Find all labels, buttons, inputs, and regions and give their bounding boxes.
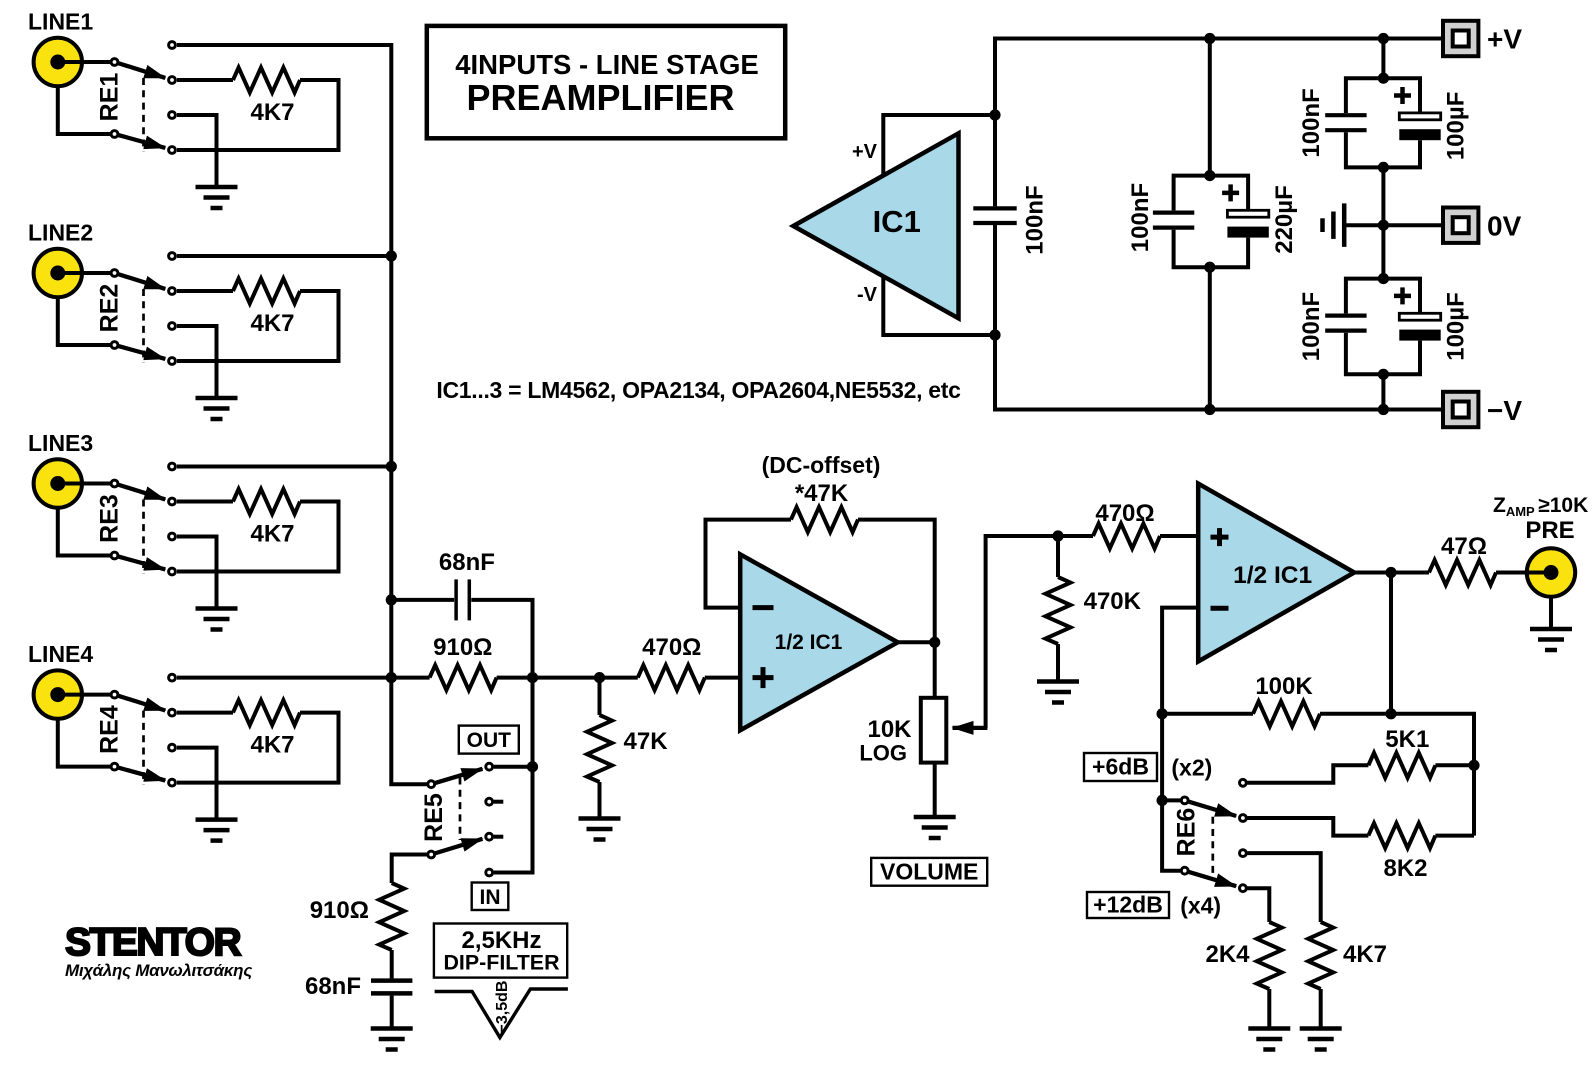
svg-text:4K7: 4K7 <box>250 521 294 548</box>
svg-text:4K7: 4K7 <box>1343 941 1387 968</box>
svg-text:(x2): (x2) <box>1171 755 1212 781</box>
svg-text:−3,5dB: −3,5dB <box>494 981 511 1034</box>
svg-text:+6dB: +6dB <box>1092 754 1149 780</box>
svg-text:RE4: RE4 <box>95 705 123 754</box>
svg-text:100µF: 100µF <box>1442 292 1469 361</box>
svg-text:LINE3: LINE3 <box>28 430 93 456</box>
svg-text:4K7: 4K7 <box>250 732 294 759</box>
svg-text:LINE1: LINE1 <box>28 9 93 35</box>
svg-text:47Ω: 47Ω <box>1441 533 1487 560</box>
svg-text:2K4: 2K4 <box>1205 941 1250 968</box>
svg-text:220µF: 220µF <box>1271 185 1298 254</box>
svg-text:5K1: 5K1 <box>1385 726 1429 753</box>
svg-text:100nF: 100nF <box>1298 292 1325 361</box>
svg-text:68nF: 68nF <box>305 973 361 1000</box>
svg-text:OUT: OUT <box>467 729 512 752</box>
svg-text:IC1...3 = LM4562, OPA2134, OPA: IC1...3 = LM4562, OPA2134, OPA2604,NE553… <box>436 377 961 403</box>
svg-text:VOLUME: VOLUME <box>880 859 978 885</box>
svg-text:(x4): (x4) <box>1180 893 1221 919</box>
svg-text:470K: 470K <box>1084 588 1142 615</box>
svg-text:100nF: 100nF <box>1127 183 1154 252</box>
svg-text:910Ω: 910Ω <box>433 634 492 661</box>
svg-text:0V: 0V <box>1487 211 1522 242</box>
svg-text:ZAMP≥10K: ZAMP≥10K <box>1493 494 1588 519</box>
svg-text:68nF: 68nF <box>439 549 495 576</box>
svg-text:DIP-FILTER: DIP-FILTER <box>443 951 560 975</box>
svg-text:−V: −V <box>1487 395 1522 426</box>
svg-text:+V: +V <box>852 141 878 163</box>
svg-text:8K2: 8K2 <box>1383 855 1427 882</box>
svg-text:47K: 47K <box>624 728 669 755</box>
svg-text:LINE2: LINE2 <box>28 220 93 246</box>
svg-text:IC1: IC1 <box>873 204 921 239</box>
svg-text:+12dB: +12dB <box>1093 892 1163 918</box>
svg-text:RE6: RE6 <box>1172 808 1200 857</box>
svg-text:PRE: PRE <box>1525 517 1574 544</box>
svg-text:470Ω: 470Ω <box>1095 500 1154 527</box>
svg-text:LOG: LOG <box>859 741 907 766</box>
svg-text:470Ω: 470Ω <box>642 634 701 661</box>
svg-text:PREAMPLIFIER: PREAMPLIFIER <box>466 77 734 118</box>
svg-text:IN: IN <box>480 886 501 909</box>
svg-text:RE2: RE2 <box>95 284 123 333</box>
svg-text:Μιχάλης Μανωλιτσάκης: Μιχάλης Μανωλιτσάκης <box>65 961 252 980</box>
svg-text:STENTOR: STENTOR <box>65 921 241 964</box>
svg-text:(DC-offset): (DC-offset) <box>762 452 881 478</box>
svg-text:RE1: RE1 <box>95 73 123 122</box>
svg-text:LINE4: LINE4 <box>28 641 93 667</box>
svg-text:RE3: RE3 <box>95 494 123 543</box>
svg-text:100nF: 100nF <box>1022 185 1049 254</box>
svg-text:100K: 100K <box>1255 673 1313 700</box>
svg-text:*47K: *47K <box>795 480 849 507</box>
svg-text:4K7: 4K7 <box>250 310 294 337</box>
svg-text:1/2 IC1: 1/2 IC1 <box>1233 562 1312 589</box>
svg-text:910Ω: 910Ω <box>310 897 369 924</box>
svg-text:-V: -V <box>857 284 878 306</box>
svg-text:4INPUTS - LINE STAGE: 4INPUTS - LINE STAGE <box>455 49 759 80</box>
svg-text:100µF: 100µF <box>1442 92 1469 161</box>
svg-text:+V: +V <box>1487 24 1522 55</box>
svg-text:100nF: 100nF <box>1298 88 1325 157</box>
svg-text:1/2 IC1: 1/2 IC1 <box>775 631 843 654</box>
svg-text:RE5: RE5 <box>420 793 448 842</box>
svg-text:10K: 10K <box>867 716 912 743</box>
svg-text:4K7: 4K7 <box>250 99 294 126</box>
